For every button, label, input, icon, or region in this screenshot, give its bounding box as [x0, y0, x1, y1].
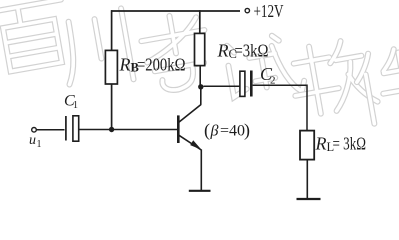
wire collector to C2 [204, 85, 240, 87]
resistor RB [105, 50, 117, 84]
svg-text:u: u [29, 133, 36, 148]
svg-text:=200kΩ: =200kΩ [137, 55, 186, 75]
node base junction [109, 127, 114, 132]
wire RB top lead [111, 10, 113, 51]
wire emitter vertical [200, 150, 202, 191]
svg-text:): ) [244, 120, 250, 141]
wire RC top lead [199, 10, 201, 33]
wire RC bottom lead [199, 66, 201, 87]
svg-text:+12V: +12V [254, 1, 284, 21]
wire RB bottom lead [111, 84, 113, 130]
ground RL [297, 198, 321, 200]
input terminal u1 [32, 128, 37, 133]
wire top rail [111, 10, 240, 12]
terminal +12V [245, 8, 249, 12]
node collector junction [198, 84, 203, 89]
svg-text:(: ( [204, 120, 210, 141]
svg-text:R: R [315, 134, 327, 154]
resistor RC [195, 33, 205, 65]
wire C2 to RL corner [253, 85, 307, 130]
transistor Q1 [178, 105, 201, 151]
wire RL bottom lead [306, 160, 308, 199]
resistor RL [300, 131, 314, 160]
svg-text:β: β [210, 123, 219, 140]
svg-text:1: 1 [73, 100, 78, 111]
wire input to C1 [37, 129, 65, 131]
svg-text:1: 1 [37, 139, 42, 150]
capacitor C2 [240, 71, 251, 97]
svg-text:R: R [217, 41, 229, 61]
ground emitter [189, 190, 211, 192]
svg-text:=40: =40 [220, 123, 245, 140]
svg-text:= 3kΩ: = 3kΩ [333, 134, 367, 154]
wire C1 to base [79, 129, 178, 131]
svg-text:R: R [119, 55, 131, 75]
wire collector vertical [200, 87, 202, 105]
svg-text:=3kΩ: =3kΩ [235, 41, 269, 61]
capacitor C1 [66, 116, 79, 141]
